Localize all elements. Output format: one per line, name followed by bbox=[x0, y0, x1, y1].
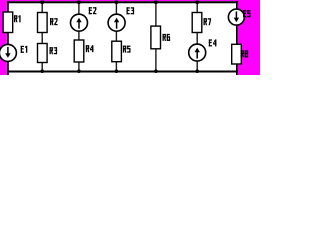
label E3 bbox=[127, 7, 135, 14]
label E2 bbox=[89, 7, 97, 14]
wire: branch B2 bbox=[41, 2, 43, 71]
wire: branch B5 bbox=[155, 2, 157, 71]
source E4 circle bbox=[189, 44, 206, 61]
resistor R1 bbox=[3, 12, 13, 33]
arrow E2 (up) bbox=[78, 22, 80, 29]
source E2 circle bbox=[71, 14, 88, 31]
arrow E4 (up) bbox=[196, 52, 198, 59]
wire: branch B3 bbox=[78, 2, 80, 71]
resistor R5 bbox=[112, 41, 122, 62]
arrow E5 (down) bbox=[235, 11, 237, 18]
source E1 circle bbox=[0, 44, 16, 61]
junction dot B2 bottom bbox=[40, 69, 44, 73]
junction dot B6 bottom bbox=[195, 69, 199, 73]
label E5 bbox=[243, 10, 251, 17]
wire: bottom rail bbox=[7, 71, 238, 73]
wire: branch B6 bbox=[196, 2, 198, 71]
wire: top rail bbox=[7, 1, 238, 3]
resistor R7 bbox=[192, 13, 202, 33]
junction dot B5 top bbox=[154, 0, 158, 4]
resistor R6 bbox=[151, 26, 161, 49]
label R4 bbox=[86, 45, 94, 52]
sheet background bbox=[0, 0, 260, 75]
resistor R4 bbox=[74, 40, 84, 62]
source E3 circle bbox=[108, 14, 125, 31]
wire: branch B4 bbox=[115, 2, 117, 71]
label R8 bbox=[241, 50, 249, 57]
wire: right branch B7 bbox=[236, 1, 238, 75]
label R2 bbox=[50, 18, 58, 25]
junction dot B4 bottom bbox=[115, 69, 119, 73]
label E1 bbox=[21, 46, 28, 53]
arrow E1 (down) bbox=[7, 47, 9, 54]
magenta backdrop right bbox=[238, 0, 260, 75]
label R6 bbox=[163, 34, 171, 41]
junction dot B3 bottom bbox=[77, 69, 81, 73]
wire: left branch B1 bbox=[7, 1, 9, 75]
junction dot B3 top bbox=[77, 0, 81, 4]
magenta backdrop top bbox=[7, 0, 238, 1]
label R5 bbox=[123, 46, 131, 53]
junction dot B6 top bbox=[195, 0, 199, 4]
label R1 bbox=[14, 15, 21, 22]
resistor R3 bbox=[38, 44, 48, 63]
resistor R2 bbox=[38, 13, 48, 33]
label E4 bbox=[209, 39, 217, 46]
label R3 bbox=[50, 47, 58, 54]
magenta backdrop left bbox=[0, 0, 7, 75]
label R7 bbox=[204, 18, 212, 25]
junction dot B5 bottom bbox=[154, 69, 158, 73]
arrow E3 (up) bbox=[116, 22, 118, 29]
junction dot B4 top bbox=[115, 0, 119, 4]
junction dot B2 top bbox=[40, 0, 44, 4]
resistor R8 bbox=[232, 44, 242, 64]
source E5 circle bbox=[228, 9, 244, 25]
